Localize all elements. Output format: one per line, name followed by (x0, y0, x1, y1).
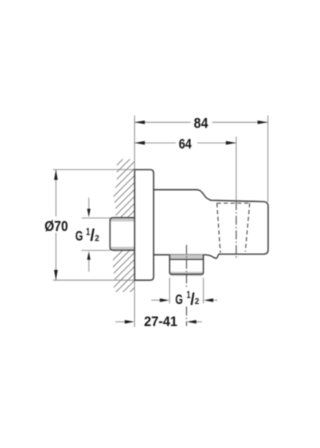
64 extension line (235, 137, 237, 202)
svg-text:2: 2 (95, 234, 100, 243)
arrow G1/2 inlet bottom (87, 251, 90, 259)
extension line outlet right (202, 278, 204, 304)
extension line inlet bottom (82, 249, 111, 251)
arrow 84 left (135, 120, 145, 124)
right extension line (84) (267, 116, 269, 203)
inlet nipple body fill (110, 218, 135, 251)
arrow 27-41 right (187, 320, 197, 324)
outlet shoulder line (170, 258, 204, 260)
inlet nipple outline (110, 218, 135, 251)
extension line flange bottom (53, 279, 135, 281)
body + holder head outline (154, 190, 269, 259)
outlet outline (170, 255, 204, 275)
hidden cone dashed lines (217, 203, 250, 253)
svg-text:G: G (75, 228, 83, 243)
wall hatch band (95, 116, 145, 341)
cone hidden right edge (245, 203, 249, 251)
dim line O70 upper segment (55, 170, 57, 217)
extension line outlet left (169, 278, 171, 304)
dim line O70 lower segment (55, 233, 57, 281)
arrow G1/2 outlet right (204, 298, 214, 302)
inlet nipple G1/2 (into wall) (110, 218, 135, 251)
arrow 64 left (135, 141, 145, 145)
dim G1/2 left (75, 198, 110, 272)
escutcheon flange (135, 170, 154, 281)
svg-text:84: 84 (194, 116, 208, 132)
extension line flange top (53, 169, 135, 171)
cone hidden top edge (217, 202, 250, 204)
cone axis centerline (also 64 extension) (235, 137, 237, 260)
svg-text:2: 2 (195, 297, 200, 306)
arrow O70 top (54, 170, 58, 180)
arrow O70 bottom (54, 270, 58, 280)
svg-text:Ø70: Ø70 (45, 219, 69, 235)
arrow tail G1/2 inlet bottom (88, 258, 90, 272)
dim line 64 right segment (197, 142, 236, 144)
cone hidden left edge (217, 203, 221, 253)
outlet bottom shade (170, 272, 203, 276)
dim line 84 right segment (212, 121, 268, 123)
arrow tail G1/2 inlet top (88, 198, 90, 211)
inlet nipple top shade (111, 218, 135, 221)
arrow tail 27-41 left (116, 321, 127, 323)
svg-text:G: G (175, 292, 183, 307)
dim 27-41 (116, 314, 203, 330)
outlet axis dash-dot lower (186, 307, 188, 327)
outlet nipple G1/2 (bottom) (170, 255, 204, 276)
arrow 84 right (258, 120, 268, 124)
arrow 64 right (226, 141, 236, 145)
arrow tail G1/2 outlet left (151, 299, 161, 301)
extension line inlet top (82, 217, 111, 219)
svg-text:64: 64 (179, 135, 192, 151)
arrow G1/2 inlet top (87, 209, 90, 218)
arrow tail G1/2 outlet right (212, 299, 218, 301)
cone axis dash-dot (235, 201, 237, 259)
arrow G1/2 outlet left (160, 298, 170, 302)
dim 64 (135, 135, 237, 151)
inlet nipple bottom shade (111, 247, 135, 250)
dim 84 (135, 116, 268, 132)
outlet shoulder shade (170, 255, 204, 260)
wall face / extension vertical line (134, 116, 136, 328)
dim line 64 left segment (135, 142, 176, 144)
dim G1/2 bottom (151, 278, 217, 309)
arrow tail 27-41 right (196, 321, 203, 323)
svg-text:27-41: 27-41 (144, 314, 177, 330)
dim line 84 left segment (135, 121, 191, 123)
outlet axis dash-dot upper (186, 245, 188, 289)
arrow 27-41 left (125, 320, 135, 324)
dim Ø70 (45, 170, 135, 281)
